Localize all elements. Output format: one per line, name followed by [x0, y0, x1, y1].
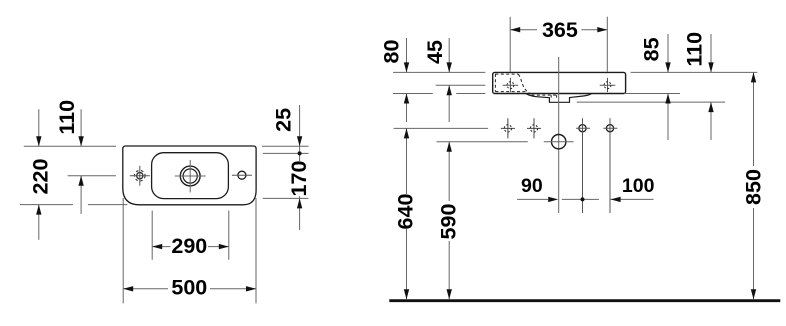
- dimension 45 line: [448, 38, 450, 122]
- extension lines for 290: [152, 211, 229, 260]
- supply hole left lines: [576, 118, 590, 213]
- dimension 640 arrows: [404, 128, 409, 299]
- dimension 110 line: [80, 109, 82, 214]
- dimension 25 arrow: [297, 136, 302, 146]
- extension lines for 365: [510, 17, 607, 72]
- dimension 590 arrows: [447, 142, 452, 300]
- svg-text:290: 290: [171, 234, 207, 258]
- dimension 80 line: [406, 38, 408, 122]
- extension line: plan top edge extended left: [24, 145, 116, 147]
- svg-text:365: 365: [542, 18, 578, 42]
- svg-text:90: 90: [521, 175, 543, 197]
- dimension dot 90/100: [581, 197, 585, 201]
- extension line: tap hole centerline extended left: [68, 175, 116, 177]
- right fixing crosshair (in profile): [600, 78, 616, 92]
- svg-text:850: 850: [742, 169, 766, 205]
- svg-text:25: 25: [271, 108, 295, 132]
- drain / underside outline (front): [526, 94, 592, 103]
- extension line: siphon centerline extended left: [437, 141, 528, 143]
- floor line: [389, 299, 780, 302]
- left fixing crosshair (in profile): [503, 78, 519, 92]
- dimension 500 arrows: [123, 286, 256, 291]
- centerline of drain (vertical): [558, 57, 560, 213]
- supply hole right circle: [606, 125, 613, 132]
- dimension 45 arrows: [447, 62, 452, 95]
- left tap hole symbol: [137, 173, 143, 179]
- hidden drain pipe dashes: [551, 95, 556, 99]
- hidden interior dashed outline: [495, 74, 557, 95]
- dimension 290 arrows: [152, 244, 229, 249]
- svg-text:110: 110: [55, 100, 79, 135]
- svg-text:170: 170: [287, 161, 311, 197]
- wall fixing cross right: [527, 118, 541, 138]
- dimension 90 line: [517, 198, 599, 200]
- dimension 290 line: [152, 246, 229, 248]
- dimension 100 arrow: [611, 197, 621, 202]
- dimension 365 line: [510, 29, 607, 31]
- dimension 590 line: [448, 142, 450, 300]
- svg-text:110: 110: [682, 32, 706, 67]
- dimension 220 line: [38, 109, 40, 240]
- svg-text:45: 45: [423, 40, 447, 64]
- svg-text:590: 590: [437, 204, 461, 240]
- siphon circle: [552, 135, 566, 149]
- dimension dot at 153.4: [298, 151, 302, 155]
- extension line: profile bottom edge extended right: [624, 93, 680, 95]
- extension line: tap centerline extended left: [436, 84, 486, 86]
- svg-text:640: 640: [393, 194, 417, 230]
- dimension 100 line: [611, 198, 654, 200]
- siphon circle crosshair: [544, 141, 574, 143]
- extension line: profile top edge extended left: [393, 71, 485, 73]
- dimension 25/170 line: [299, 105, 301, 230]
- svg-text:100: 100: [622, 175, 655, 197]
- drain crosshair: [175, 160, 206, 192]
- extension line: profile bottom edge extended left: [393, 93, 485, 95]
- dimension 500 line: [123, 288, 256, 290]
- dimension 170 arrow: [297, 198, 302, 208]
- dimension 85 line: [667, 34, 669, 140]
- supply hole left circle: [579, 125, 586, 132]
- dimension 110 (right) line: [710, 34, 712, 140]
- svg-text:80: 80: [379, 40, 403, 64]
- dimension 850 line: [753, 72, 755, 299]
- dimension 640 line: [406, 128, 408, 299]
- wall fixing cross left: [501, 118, 515, 138]
- drain hole outer circle: [180, 166, 200, 186]
- dimension 110 arrows: [78, 136, 83, 185]
- svg-text:220: 220: [29, 159, 53, 195]
- extension line: fixing holes row extended left: [394, 127, 489, 129]
- extension line: plan bottom edge extended left: [20, 204, 127, 206]
- drain hole inner circle: [183, 169, 197, 183]
- dimension 85 arrows: [665, 62, 670, 103]
- dimension 80 arrows: [404, 62, 409, 103]
- basin profile outline (front): [493, 72, 626, 93]
- dimension 220 arrows: [36, 136, 41, 214]
- svg-text:500: 500: [171, 276, 207, 300]
- supply hole right lines: [603, 118, 617, 213]
- extension line: drain bottom extended right: [577, 101, 725, 103]
- extension lines right of plan: [262, 146, 309, 198]
- extension line: profile top edge extended right: [631, 71, 758, 73]
- dimension 110 (right) arrows: [708, 62, 713, 112]
- dimension 850 arrows: [751, 72, 756, 299]
- dimension 90 arrow: [548, 197, 558, 202]
- right overflow hole: [238, 171, 246, 179]
- basin inner bowl outline (plan): [152, 153, 229, 199]
- basin outer outline (plan): [123, 146, 256, 205]
- extension lines for 500: [123, 198, 256, 303]
- svg-text:85: 85: [640, 37, 664, 61]
- dimension 365 arrows: [510, 27, 607, 32]
